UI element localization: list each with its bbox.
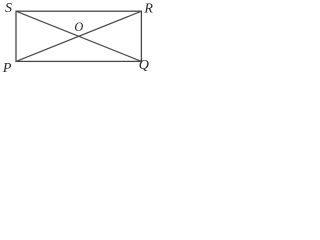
wire diagonal PR	[16, 11, 141, 61]
svg-text:Q: Q	[139, 58, 149, 73]
svg-text:S: S	[5, 1, 12, 16]
rectangle PQRS	[16, 11, 141, 61]
svg-text:R: R	[143, 2, 153, 17]
svg-text:O: O	[74, 20, 83, 34]
svg-text:P: P	[2, 61, 12, 76]
wire diagonal SQ	[16, 11, 141, 61]
